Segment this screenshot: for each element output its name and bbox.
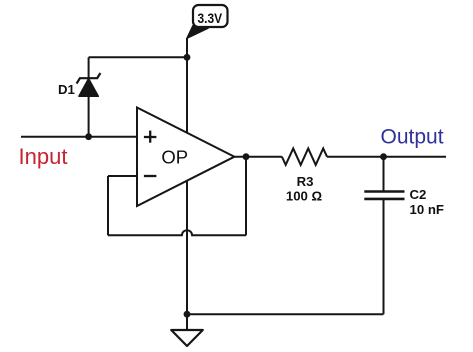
wire: diode anode lead [88, 96, 90, 137]
wire: feedback right vertical [245, 157, 247, 236]
node: supply/diode junction [184, 54, 191, 61]
svg-text:100 Ω: 100 Ω [286, 189, 323, 204]
node: input/diode junction [85, 133, 92, 140]
ground [171, 330, 203, 346]
svg-text:10 nF: 10 nF [410, 202, 444, 217]
wire: horizontal supply to diode cathode [89, 56, 187, 58]
wire: resistor to output end [327, 156, 446, 158]
wire: op-amp V- pin to ground rail [186, 181, 188, 315]
svg-text:3.3V: 3.3V [198, 10, 223, 26]
capacitor C2 [364, 192, 404, 199]
wire: supply vertical (flag to op-amp V+) [186, 38, 188, 133]
svg-text:OP: OP [161, 146, 188, 167]
wire: capacitor top lead [383, 157, 385, 192]
svg-text:C2: C2 [410, 187, 427, 202]
resistor R3 [282, 148, 327, 165]
diode D1 (zener) [77, 73, 101, 96]
op-amp plus marking [144, 131, 157, 143]
op-amp minus marking [144, 175, 157, 177]
wire: feedback into inverting input [108, 175, 137, 177]
node: output/capacitor junction [380, 153, 387, 160]
wire: output from op-amp [234, 156, 282, 158]
svg-text:D1: D1 [58, 82, 75, 97]
svg-text:R3: R3 [297, 174, 314, 189]
wire: ground rail [187, 313, 384, 315]
wire: ground stub [186, 314, 188, 330]
wire: input [21, 136, 137, 138]
wire: feedback left vertical [107, 176, 109, 235]
node: output/feedback junction [243, 153, 250, 160]
svg-text:Output: Output [381, 126, 444, 149]
wire: diode cathode lead [88, 57, 90, 79]
wire: feedback bottom with hop over supply wire [108, 230, 246, 235]
wire: capacitor bottom lead [383, 199, 385, 314]
node: ground junction [184, 311, 191, 318]
supply flag 3.3V [187, 5, 228, 38]
svg-text:Input: Input [19, 144, 68, 169]
op-amp U1 body [137, 108, 234, 207]
